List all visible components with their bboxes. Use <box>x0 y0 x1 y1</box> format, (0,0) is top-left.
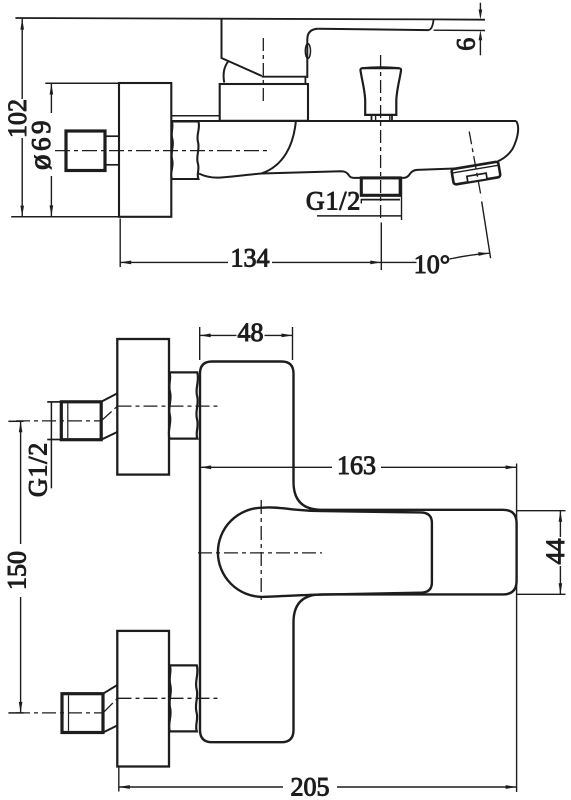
arrow 102 top <box>20 19 24 30</box>
dim 48 <box>200 334 293 336</box>
svg-text:150: 150 <box>3 551 32 590</box>
svg-text:44: 44 <box>541 539 570 565</box>
svg-text:48: 48 <box>238 318 264 347</box>
knob centerline horizontal <box>198 552 322 554</box>
upper cone top <box>101 393 117 402</box>
spout end arc <box>498 121 519 161</box>
leader G1/2 lower <box>50 402 52 488</box>
upper centerline flange <box>118 405 219 407</box>
ext G1/2 left <box>360 199 362 204</box>
dim 102 <box>21 19 23 217</box>
arrow 44 top <box>559 511 563 522</box>
knob rear arc <box>224 61 229 82</box>
arrow 150 bottom <box>19 702 23 713</box>
svg-text:G1/2: G1/2 <box>306 187 361 216</box>
svg-text:163: 163 <box>337 451 376 480</box>
body underside right <box>400 169 455 178</box>
diverter neck outer left <box>371 116 373 121</box>
ext right long 163/205 <box>516 464 518 793</box>
lower cone top <box>103 685 118 694</box>
underline G1/2 <box>317 215 402 217</box>
ext 10deg tilted <box>482 202 491 259</box>
diverter knob top arch <box>362 66 399 69</box>
dim 6 <box>479 3 481 55</box>
diverter neck outer right <box>391 116 393 121</box>
arrow 48 right <box>282 334 293 338</box>
cartridge collar <box>220 84 308 121</box>
lower centerline diagonal <box>103 698 118 713</box>
lower mount flange <box>117 631 169 767</box>
upper hex nut <box>169 372 198 438</box>
wire lever top line <box>15 18 485 20</box>
arrow 205 right <box>506 785 517 789</box>
upper centerline diagonal <box>101 406 117 421</box>
dim 150 line <box>20 421 22 713</box>
lever tip arc <box>429 19 434 30</box>
diverter knob <box>360 68 401 115</box>
arrow phi69 bottom <box>50 205 54 216</box>
wire lever bottom edge <box>319 29 429 30</box>
ext 48 left <box>199 327 201 360</box>
body outline <box>200 362 517 743</box>
ext 205 left <box>118 768 120 792</box>
eccentric tailpiece <box>66 131 105 171</box>
arrow 48 left <box>200 334 211 338</box>
arrow 10deg <box>478 252 489 256</box>
arrow 44 bottom <box>559 583 563 594</box>
arrow 134 right <box>370 261 381 265</box>
upper cone bottom <box>101 432 117 440</box>
svg-text:6: 6 <box>452 38 481 51</box>
arrow 150 top <box>19 421 23 432</box>
arrow 102 bottom <box>20 206 24 217</box>
svg-text:10°: 10° <box>414 250 450 279</box>
aerator tilted <box>451 161 500 184</box>
svg-text:G1/2: G1/2 <box>24 442 53 497</box>
centerline handle <box>262 38 264 102</box>
arrow phi69 top <box>50 84 54 95</box>
ext 134 left <box>119 219 121 268</box>
tick G1/2 bottom <box>47 439 63 441</box>
outlet rim <box>362 199 400 201</box>
ext 44 bottom <box>517 593 566 595</box>
svg-text:134: 134 <box>231 244 270 273</box>
tick G1/2 top <box>47 401 62 403</box>
connector line bottom <box>105 164 119 166</box>
svg-text:ø69: ø69 <box>22 117 57 170</box>
dim phi69 line <box>50 84 52 217</box>
upper centerline tail <box>16 420 101 422</box>
dim 10deg arc right <box>450 253 490 259</box>
handle capsule <box>218 507 432 596</box>
upper tailpiece thread line <box>67 404 69 439</box>
tick phi69 top <box>45 82 119 84</box>
wall plate <box>119 83 171 217</box>
arrow 163 left <box>200 465 211 469</box>
body top edge <box>171 120 517 122</box>
knob front ellipse <box>305 44 310 59</box>
boss top line <box>171 115 220 117</box>
arrow 205 left <box>119 785 130 789</box>
ext 44 top <box>517 510 566 512</box>
lower cone bottom <box>103 725 118 732</box>
dim 205 line <box>119 786 517 788</box>
collar lip <box>262 77 306 84</box>
arrow 6 bottom <box>479 30 483 40</box>
dim 163 <box>200 466 516 468</box>
diverter neck inner left <box>375 116 377 121</box>
centerline outlet <box>380 55 382 222</box>
arrow 6 top <box>479 10 483 20</box>
lower centerline tail <box>16 712 103 714</box>
ext 48 right <box>292 327 294 360</box>
centerline body axis <box>55 150 268 152</box>
lower centerline flange <box>118 697 219 699</box>
dim 44 line <box>559 511 561 595</box>
lower hex nut <box>169 665 197 731</box>
extension line 6 bottom <box>434 29 485 31</box>
lower tailpiece <box>62 694 103 733</box>
arrow 163 right <box>506 465 517 469</box>
upper mount flange <box>117 339 169 475</box>
dim 134 <box>120 261 381 263</box>
knob front corner <box>307 29 319 78</box>
lower tailpiece thread line <box>68 695 70 730</box>
ext 134/10 right <box>380 223 382 271</box>
tick 150 bottom <box>8 712 23 714</box>
tick 150 top <box>8 420 23 422</box>
centerline aerator 10deg <box>469 132 481 198</box>
body underside left <box>199 171 361 178</box>
dim 10deg <box>381 261 416 263</box>
connector line top <box>105 135 119 137</box>
spout blend arc <box>262 122 296 174</box>
handle knob back edge <box>222 19 262 76</box>
outlet G1/2 thick rect <box>361 178 400 195</box>
svg-text:205: 205 <box>291 773 330 800</box>
upper tailpiece <box>61 402 101 440</box>
knob centerline vertical <box>260 500 262 604</box>
arrow 134 left <box>120 261 131 265</box>
hex nut side view <box>171 121 199 179</box>
diverter neck inner right <box>389 116 391 121</box>
tick bottom shared <box>11 216 119 218</box>
ext G1/2 right <box>401 179 403 221</box>
